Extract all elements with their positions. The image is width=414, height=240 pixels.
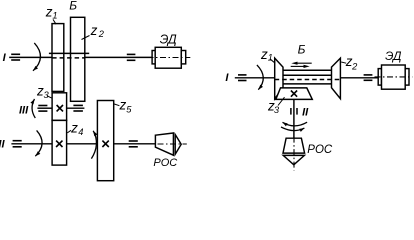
svg-text:ЭД: ЭД — [160, 32, 177, 46]
svg-text:1: 1 — [268, 53, 273, 63]
svg-text:5: 5 — [126, 104, 132, 114]
svg-text:3: 3 — [44, 90, 50, 100]
svg-text:ЭД: ЭД — [385, 49, 402, 63]
svg-text:2: 2 — [98, 29, 105, 39]
svg-text:Б: Б — [69, 0, 77, 13]
svg-text:II: II — [302, 107, 309, 119]
svg-text:2: 2 — [351, 61, 358, 71]
svg-text:Б: Б — [298, 42, 306, 56]
svg-text:1: 1 — [52, 10, 57, 20]
svg-text:z: z — [90, 23, 98, 38]
svg-text:3: 3 — [274, 105, 280, 115]
svg-text:III: III — [19, 104, 29, 116]
svg-text:4: 4 — [78, 127, 83, 137]
svg-text:РОС: РОС — [307, 144, 333, 156]
svg-text:z: z — [70, 120, 78, 135]
svg-text:РОС: РОС — [153, 157, 177, 169]
